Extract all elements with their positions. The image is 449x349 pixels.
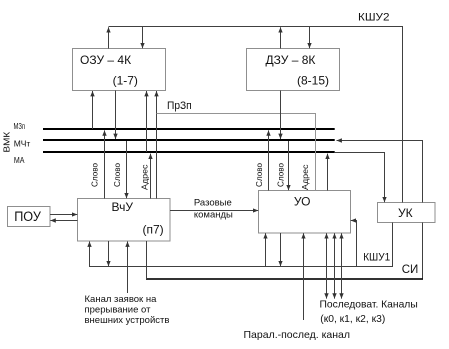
svg-text:Канал заявок на: Канал заявок на [85, 294, 158, 305]
svg-text:Слово: Слово [113, 162, 122, 187]
wire УО down to КШУ1 [280, 233, 282, 266]
svg-text:МА: МА [14, 155, 25, 165]
wire СИ horizontal [146, 278, 423, 280]
wire ОЗУ to МЧт [115, 91, 117, 140]
wire ДЗУ to МЧт [280, 91, 282, 140]
label Слово 2 rotated [113, 162, 122, 187]
wire УК to МЧт thin extension [337, 141, 423, 203]
wire КШУ2 to ДЗУ [309, 27, 311, 49]
wire serial channel к1 [326, 233, 328, 298]
bus МА [43, 151, 335, 153]
wire Парал.-послед. канал to УО [303, 233, 305, 320]
wire УО to МА (Адрес) [327, 154, 329, 191]
svg-text:ОЗУ – 4К: ОЗУ – 4К [80, 53, 131, 67]
box УО [259, 191, 351, 234]
wire ДЗУ to КШУ2 [280, 27, 282, 48]
wire КШУ1 up to УО [265, 233, 267, 266]
label ПрЗп [167, 100, 192, 112]
label КШУ2 [358, 12, 390, 24]
svg-text:МЗп: МЗп [14, 121, 26, 131]
label Парал.-послед. канал [244, 329, 351, 341]
wire ПрЗп branch right [157, 114, 316, 191]
wire Адрес continues to ОЗУ [146, 91, 148, 152]
wire serial channel к3 [341, 233, 343, 298]
svg-text:(к0, к1, к2, к3): (к0, к1, к2, к3) [320, 314, 385, 325]
svg-text:ПрЗп: ПрЗп [167, 100, 192, 112]
box ВчУ [78, 199, 171, 242]
svg-text:команды: команды [194, 209, 233, 220]
wire serial channel к2 [334, 233, 336, 298]
label Слово 4 rotated [277, 162, 286, 187]
svg-text:(8-15): (8-15) [297, 74, 329, 88]
box ПОУ [8, 207, 51, 227]
wire Разовые команды ВчУ to УО [170, 210, 258, 212]
wire ВчУ to ПОУ [50, 220, 77, 222]
svg-text:Слово: Слово [277, 162, 286, 187]
svg-text:Адрес: Адрес [141, 165, 150, 191]
wire ПрЗп ВчУ to ОЗУ [156, 91, 158, 199]
label Слово 1 rotated [90, 162, 99, 187]
svg-text:ПОУ: ПОУ [14, 209, 41, 224]
wire ВчУ down to КШУ1 [108, 241, 110, 266]
wire bus КШУ2 top [109, 27, 403, 203]
svg-text:Разовые: Разовые [194, 198, 232, 209]
svg-text:МЧт: МЧт [14, 138, 31, 148]
box УК [378, 203, 436, 223]
wire ОЗУ to КШУ2 [108, 27, 110, 48]
svg-text:внешних устройств: внешних устройств [85, 315, 170, 326]
svg-text:Последоват. Каналы: Последоват. Каналы [320, 299, 418, 310]
svg-text:ДЗУ – 8К: ДЗУ – 8К [266, 53, 316, 67]
svg-text:КШУ1: КШУ1 [363, 252, 390, 264]
svg-text:(1-7): (1-7) [113, 74, 138, 88]
svg-text:Слово: Слово [90, 162, 99, 187]
wire Канал заявок to ВчУ [127, 242, 129, 294]
wire ВчУ to МЗп (Слово) [104, 130, 106, 198]
label Последоват. Каналы [320, 299, 418, 325]
svg-text:(п7): (п7) [143, 222, 164, 236]
wire МЧт to УО (Слово) [288, 141, 290, 190]
wire СИ up to ВчУ [146, 241, 148, 279]
label МЧт [14, 138, 31, 148]
label КШУ1 [363, 252, 390, 264]
bus МЧт [43, 139, 335, 141]
label Разовые команды [194, 198, 233, 221]
label МЗп [14, 121, 26, 131]
wire ВчУ to МА (Адрес) arrow at bus [150, 154, 152, 199]
label ВМК rotated [2, 132, 12, 153]
svg-text:прерывание от: прерывание от [85, 304, 152, 315]
svg-text:Слово: Слово [255, 162, 264, 187]
wire УО to МЗп (Слово) [268, 130, 270, 190]
svg-text:КШУ2: КШУ2 [358, 12, 390, 24]
bus МЗп [43, 128, 335, 130]
svg-text:ВМК: ВМК [2, 132, 12, 153]
wire КШУ1 net [90, 223, 393, 267]
wire КШУ2 to ОЗУ [142, 27, 144, 49]
label СИ [402, 264, 419, 276]
wire СИ vertical from УК [422, 223, 424, 279]
svg-text:ВчУ: ВчУ [112, 200, 134, 214]
label Адрес 1 rotated [141, 165, 150, 191]
label Слово 3 rotated [255, 162, 264, 187]
box ОЗУ-4К [73, 49, 166, 91]
wire МЗп to ОЗУ [92, 91, 94, 129]
wire КШУ1 to УО right side [351, 221, 357, 267]
label Канал заявок на прерывание от внешних устройств [85, 294, 170, 326]
svg-text:Парал.-послед. канал: Парал.-послед. канал [244, 329, 351, 341]
svg-text:СИ: СИ [402, 264, 419, 276]
label МА [14, 155, 25, 165]
wire МА thin extension to УК [335, 153, 385, 203]
svg-text:УО: УО [294, 194, 311, 208]
wire МЧт to ВчУ (Слово) [126, 141, 128, 198]
svg-text:УК: УК [398, 206, 413, 220]
box ДЗУ-8К [247, 49, 340, 91]
label Адрес 2 rotated [301, 165, 310, 191]
wire ПОУ to ВчУ [50, 214, 77, 216]
svg-text:Адрес: Адрес [301, 165, 310, 191]
